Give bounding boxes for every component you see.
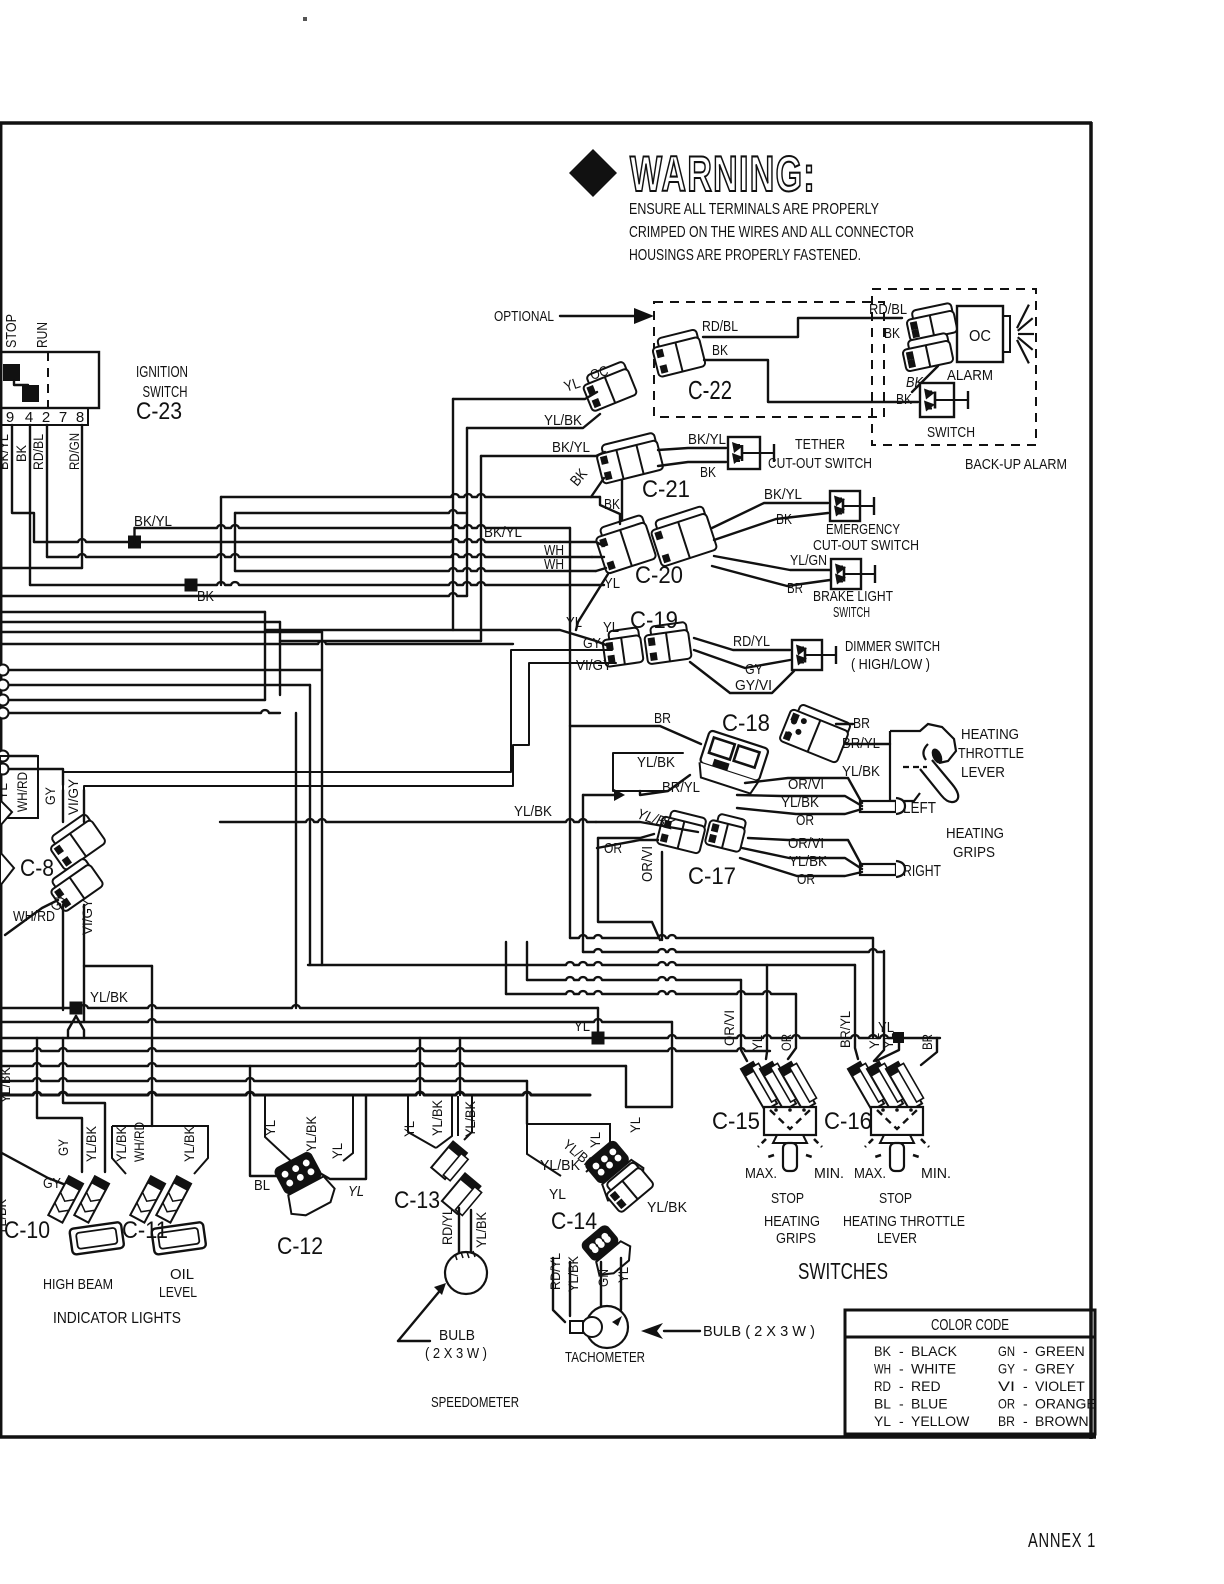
wire V2 mid vertical bbox=[582, 795, 584, 952]
optional arrowhead bbox=[634, 308, 654, 324]
svg-text:YL: YL bbox=[615, 1267, 631, 1283]
wire grip R1 bbox=[748, 838, 862, 866]
wire C-14 loop bbox=[626, 1106, 672, 1108]
wire drop 420 bbox=[419, 1038, 421, 1095]
wire 994 drop OR bbox=[788, 994, 796, 1059]
svg-text:RD/GN: RD/GN bbox=[66, 433, 82, 470]
wire run 641 bbox=[280, 640, 481, 642]
wire 1010 corner bbox=[597, 1008, 599, 1032]
svg-text:-: - bbox=[899, 1343, 904, 1359]
wire speedo lead 2 bbox=[470, 1210, 472, 1253]
svg-text:MIN.: MIN. bbox=[921, 1165, 951, 1182]
wire vert 296 bbox=[295, 713, 297, 1008]
svg-text:BR: BR bbox=[998, 1413, 1015, 1429]
svg-text:YL/BK: YL/BK bbox=[429, 1099, 445, 1136]
svg-text:C-16: C-16 bbox=[824, 1108, 872, 1135]
junction YL small bbox=[893, 1032, 904, 1043]
svg-text:GY: GY bbox=[43, 1175, 61, 1192]
svg-text:YL: YL bbox=[878, 1019, 894, 1036]
connector C-8 upper bbox=[45, 813, 107, 871]
ignition switch contact link bbox=[14, 381, 28, 385]
svg-text:OIL: OIL bbox=[170, 1266, 194, 1283]
wire BK from C-21 down bbox=[621, 480, 623, 519]
wire pin4 descent bbox=[29, 425, 31, 585]
svg-text:RUN: RUN bbox=[34, 322, 51, 348]
bulb arrowhead speedo bbox=[434, 1283, 446, 1295]
left grip symbol bbox=[860, 798, 905, 814]
wire V1 mid vertical bbox=[569, 726, 571, 938]
svg-text:RD/BL: RD/BL bbox=[869, 301, 907, 318]
svg-text:OR/VI: OR/VI bbox=[721, 1010, 737, 1046]
connector C-22 bbox=[650, 329, 706, 377]
svg-text:GRIPS: GRIPS bbox=[953, 844, 995, 861]
svg-text:-: - bbox=[899, 1413, 904, 1429]
left edge cut connector 1 bbox=[0, 800, 12, 826]
wire mate BR bbox=[836, 723, 853, 725]
wire into C-20 WH2 bbox=[596, 568, 606, 571]
label frame YL/BK c18 bbox=[613, 753, 683, 791]
junction YL bbox=[592, 1032, 605, 1045]
svg-text:BULB ( 2 X 3 W ): BULB ( 2 X 3 W ) bbox=[703, 1323, 815, 1340]
svg-text:C-13: C-13 bbox=[394, 1187, 440, 1214]
wire RD/BL to alarm bbox=[703, 318, 902, 337]
wire vert 235 bbox=[234, 513, 236, 571]
wire C-21 to tether BK bbox=[658, 462, 726, 466]
wire junction fan left bbox=[68, 1016, 76, 1038]
svg-text:C-11: C-11 bbox=[122, 1217, 168, 1244]
svg-text:YL/BK: YL/BK bbox=[514, 803, 552, 820]
wire vert 280 drop bbox=[279, 622, 281, 695]
wire run 980 bbox=[527, 977, 741, 980]
tachometer circle bbox=[586, 1306, 628, 1348]
svg-text:GY: GY bbox=[42, 786, 58, 805]
connector C-13 upper bbox=[431, 1141, 470, 1182]
svg-text:BK: BK bbox=[567, 466, 591, 490]
svg-text:YL/BK: YL/BK bbox=[462, 1100, 478, 1137]
wire left circle 670 bbox=[9, 669, 322, 671]
left edge terminal ring 1 bbox=[0, 665, 9, 676]
wire run 1095 bbox=[0, 1092, 590, 1095]
wire vert BKYL drop bbox=[480, 456, 482, 641]
svg-text:C-8: C-8 bbox=[20, 855, 54, 882]
svg-text:BK: BK bbox=[874, 1343, 892, 1359]
wire BK stub C-21 bbox=[591, 478, 604, 497]
ignition switch contact 1 bbox=[3, 364, 20, 381]
svg-text:HIGH BEAM: HIGH BEAM bbox=[43, 1276, 113, 1293]
wire run 952 bbox=[583, 949, 884, 952]
wire run 497 bbox=[221, 494, 600, 497]
svg-text:C-10: C-10 bbox=[4, 1217, 50, 1244]
wire WH/RD diag c8 bbox=[5, 900, 58, 935]
svg-text:YL: YL bbox=[262, 1120, 278, 1136]
wire C-8 drop VIGY bbox=[83, 790, 85, 822]
svg-text:C-21: C-21 bbox=[642, 476, 690, 503]
connector C-12 bbox=[269, 1148, 339, 1221]
connector C-8 lower bbox=[45, 857, 104, 912]
warning diamond bbox=[569, 149, 617, 197]
wire C-20 to emergency 2 bbox=[714, 513, 828, 540]
svg-text:BK: BK bbox=[13, 444, 29, 462]
svg-text:VI/GY: VI/GY bbox=[576, 657, 612, 674]
wire 1066 corner bbox=[625, 1066, 627, 1107]
page border right bbox=[1089, 122, 1093, 1439]
svg-text:ALARM: ALARM bbox=[947, 367, 993, 384]
svg-text:ORANGE: ORANGE bbox=[1035, 1396, 1096, 1412]
dashed box back-up alarm bbox=[872, 289, 1036, 445]
tach needle bbox=[612, 1316, 622, 1326]
wire vert 221 bbox=[220, 497, 222, 585]
svg-text:BK/YL: BK/YL bbox=[552, 439, 590, 456]
wire left circle 700 bbox=[9, 699, 265, 701]
svg-text:BK/YL: BK/YL bbox=[688, 431, 726, 448]
funnel C-14 frame bbox=[527, 1124, 610, 1176]
speedometer hatch bbox=[455, 1251, 475, 1260]
ignition switch dashed divider bbox=[47, 352, 49, 408]
svg-text:YL/BK: YL/BK bbox=[544, 412, 582, 429]
svg-text:HEATING: HEATING bbox=[764, 1213, 820, 1230]
svg-text:RD/YL: RD/YL bbox=[547, 1253, 563, 1290]
wire OR box top bbox=[598, 834, 654, 838]
wire C-19 to dimmer RD/YL bbox=[694, 638, 790, 650]
wire run 622 bbox=[0, 621, 280, 623]
svg-text:OR/VI: OR/VI bbox=[639, 846, 656, 882]
wire run 513b bbox=[235, 510, 467, 513]
optional arrow line bbox=[560, 315, 634, 317]
svg-text:WH/RD: WH/RD bbox=[14, 772, 30, 812]
wire into C-17 left bbox=[597, 840, 658, 848]
funnel C-11 frame bbox=[112, 1126, 208, 1174]
svg-text:LEFT: LEFT bbox=[903, 800, 936, 817]
connector C-21 bbox=[594, 432, 663, 484]
emergency cut-out switch bbox=[830, 491, 874, 521]
wire run 965 bbox=[308, 962, 855, 965]
svg-text:C-20: C-20 bbox=[635, 562, 683, 589]
wire 1038 drop 899 bbox=[876, 1043, 899, 1061]
wire BK switch to terminal bbox=[912, 366, 938, 392]
ignition switch contact 2 bbox=[22, 385, 39, 402]
svg-text:OR: OR bbox=[797, 871, 815, 888]
wire OR c17 path bbox=[598, 838, 660, 940]
wire mate to lever bbox=[846, 743, 890, 745]
wire C-20 to brake 1 bbox=[714, 556, 830, 570]
wire C-8 lower drops bbox=[62, 905, 64, 1010]
wire tach lead 1 bbox=[553, 1258, 565, 1322]
wire frame to C-18 bbox=[640, 775, 690, 795]
svg-text:YL/BK: YL/BK bbox=[90, 989, 128, 1006]
tachometer bulb bbox=[582, 1317, 602, 1337]
svg-text:4: 4 bbox=[25, 409, 33, 426]
svg-text:CRIMPED ON THE WIRES AND ALL C: CRIMPED ON THE WIRES AND ALL CONNECTOR bbox=[629, 224, 914, 241]
svg-text:BACK-UP ALARM: BACK-UP ALARM bbox=[965, 456, 1067, 473]
svg-text:GN: GN bbox=[998, 1343, 1015, 1359]
svg-text:GY: GY bbox=[998, 1361, 1016, 1377]
wire pin9 descent bbox=[12, 425, 34, 542]
left edge terminal ring 6 bbox=[0, 764, 9, 775]
svg-text:MIN.: MIN. bbox=[814, 1165, 844, 1182]
bulb arrowhead tach bbox=[641, 1323, 663, 1339]
svg-text:YL/BK: YL/BK bbox=[647, 1199, 687, 1216]
svg-text:DIMMER SWITCH: DIMMER SWITCH bbox=[845, 638, 940, 655]
wire BR to C-16 prong bbox=[921, 1038, 937, 1065]
svg-text:YL: YL bbox=[566, 614, 582, 631]
wire grip L2 bbox=[737, 795, 862, 806]
connector C-19 right bbox=[643, 622, 692, 665]
connector C-14 upper bbox=[580, 1136, 650, 1207]
svg-text:YL/BK: YL/BK bbox=[635, 806, 677, 834]
wire 497 corner to C-20R bbox=[600, 497, 620, 524]
connector C-20 left bbox=[593, 514, 657, 574]
svg-text:YL: YL bbox=[401, 1121, 417, 1137]
wire stepped run 557 bbox=[47, 554, 592, 557]
wire run 1081 bbox=[0, 1078, 527, 1081]
wire 951 drop YL2 bbox=[874, 951, 884, 1061]
svg-text:LEVEL: LEVEL bbox=[159, 1284, 197, 1301]
connector C-20 right bbox=[648, 505, 717, 567]
svg-text:BK: BK bbox=[700, 464, 716, 481]
wire run 1038 bbox=[0, 1035, 940, 1038]
svg-text:BL: BL bbox=[254, 1177, 270, 1194]
svg-text:( HIGH/LOW ): ( HIGH/LOW ) bbox=[851, 656, 930, 673]
tether cut-out switch bbox=[728, 437, 774, 469]
svg-text:EMERGENCY: EMERGENCY bbox=[826, 521, 900, 538]
svg-text:RD/YL: RD/YL bbox=[439, 1208, 455, 1245]
svg-text:CUT-OUT SWITCH: CUT-OUT SWITCH bbox=[768, 455, 872, 472]
wire run 1010 bbox=[0, 1005, 598, 1008]
wire V2 top corner bbox=[583, 794, 614, 796]
svg-text:MAX.: MAX. bbox=[854, 1165, 886, 1182]
left edge cut connector 2 bbox=[0, 852, 14, 886]
svg-text:OR: OR bbox=[604, 840, 622, 857]
svg-text:GY: GY bbox=[55, 1138, 71, 1156]
wire drop 37 bbox=[37, 1038, 82, 1172]
connector OC top bbox=[580, 361, 638, 412]
svg-text:YL/BK: YL/BK bbox=[789, 853, 827, 870]
connector C-17 right bbox=[705, 812, 748, 853]
svg-text:YL/BK: YL/BK bbox=[113, 1125, 129, 1162]
stray mark top bbox=[303, 17, 307, 21]
svg-text:BROWN: BROWN bbox=[1035, 1413, 1089, 1429]
junction BK bbox=[185, 579, 198, 592]
svg-text:YL/BK: YL/BK bbox=[0, 1066, 13, 1103]
wire YL to C-19 label bbox=[265, 630, 606, 645]
svg-text:RD/YL: RD/YL bbox=[733, 633, 770, 650]
left edge terminal ring 2 bbox=[0, 680, 9, 691]
svg-text:7: 7 bbox=[59, 409, 67, 426]
svg-text:STOP: STOP bbox=[879, 1190, 912, 1207]
back-up switch bbox=[920, 383, 968, 417]
wire stub 506 bbox=[505, 942, 507, 994]
wire C-20 to brake 2 bbox=[712, 566, 830, 586]
alarm box tab bbox=[1003, 316, 1010, 352]
svg-text:C-19: C-19 bbox=[630, 607, 678, 634]
ignition switch pin row bbox=[0, 408, 88, 425]
svg-text:YL/BK: YL/BK bbox=[83, 1125, 99, 1162]
svg-text:BR: BR bbox=[853, 715, 870, 732]
svg-text:-: - bbox=[1023, 1396, 1028, 1412]
svg-text:-: - bbox=[1023, 1361, 1028, 1377]
svg-text:YL: YL bbox=[874, 1413, 891, 1429]
wire bulb arrow speedo bbox=[398, 1287, 443, 1341]
svg-text:OR/VI: OR/VI bbox=[788, 835, 824, 852]
wire vert 322b bbox=[321, 632, 323, 965]
svg-text:YL: YL bbox=[549, 1186, 566, 1203]
wire tach lead 4 bbox=[620, 1258, 622, 1310]
wire run 938 bbox=[570, 935, 873, 938]
wire run 1051 bbox=[0, 1048, 770, 1051]
wire run 632 bbox=[0, 631, 322, 633]
svg-text:TETHER: TETHER bbox=[795, 436, 845, 453]
wire drop 460 bbox=[459, 1038, 461, 1095]
svg-text:INDICATOR LIGHTS: INDICATOR LIGHTS bbox=[53, 1310, 181, 1327]
wire C-12 loop outer bbox=[250, 1066, 290, 1176]
svg-text:WH/RD: WH/RD bbox=[13, 908, 55, 925]
connector C-18 bbox=[695, 730, 769, 795]
svg-text:YL/BK: YL/BK bbox=[181, 1125, 197, 1162]
svg-text:BR/YL: BR/YL bbox=[837, 1011, 853, 1048]
svg-text:YL: YL bbox=[0, 783, 10, 800]
svg-text:COLOR CODE: COLOR CODE bbox=[931, 1317, 1009, 1334]
svg-text:GY/VI: GY/VI bbox=[735, 677, 772, 694]
svg-text:YL: YL bbox=[627, 1117, 643, 1133]
wire stub 527 bbox=[526, 942, 528, 980]
arrow on wire V2 bbox=[614, 789, 625, 801]
wire left circle 769 bbox=[9, 769, 63, 785]
wire run 994 bbox=[506, 991, 796, 994]
svg-text:THROTTLE: THROTTLE bbox=[958, 745, 1024, 762]
right grip symbol bbox=[860, 861, 905, 877]
wire pin2 descent bbox=[46, 425, 48, 557]
wire grip R2 bbox=[742, 848, 862, 869]
terminal BK back-up bbox=[901, 332, 954, 371]
wire run 644 bbox=[0, 641, 513, 644]
switch C-15 bbox=[741, 1060, 822, 1171]
svg-text:-: - bbox=[1023, 1378, 1028, 1394]
svg-text:BK: BK bbox=[712, 342, 728, 359]
svg-text:C-22: C-22 bbox=[688, 375, 732, 405]
svg-text:C-12: C-12 bbox=[277, 1233, 323, 1260]
wire vert YL drop bbox=[452, 399, 454, 630]
ignition switch C-23 body bbox=[0, 352, 99, 408]
wire into C-20 WH1 bbox=[592, 556, 604, 558]
wire RD/GN leftward bbox=[0, 567, 82, 569]
left edge terminal ring 5 bbox=[0, 751, 9, 762]
svg-text:SWITCH: SWITCH bbox=[927, 424, 975, 441]
wire drop 152 bbox=[151, 1010, 153, 1126]
wire tach lead 3 bbox=[600, 1262, 602, 1307]
svg-text:YL: YL bbox=[574, 1018, 590, 1035]
svg-text:8: 8 bbox=[76, 409, 84, 426]
wire BK/YL main run bbox=[34, 539, 560, 542]
page border bottom bbox=[0, 1435, 1096, 1439]
wire left circle 756 bbox=[9, 755, 37, 757]
svg-text:-: - bbox=[899, 1361, 904, 1377]
svg-text:RD: RD bbox=[874, 1378, 891, 1394]
svg-text:BK/YL: BK/YL bbox=[0, 434, 11, 470]
wire 1022 corner C-14 loop bbox=[671, 1022, 673, 1107]
wire GY diag c10 bbox=[0, 1152, 66, 1185]
junction BK/YL bbox=[128, 536, 141, 549]
dimmer switch bbox=[792, 640, 836, 670]
svg-text:VI: VI bbox=[998, 1378, 1015, 1394]
wire bulb arrow tach bbox=[664, 1330, 700, 1332]
connector C-18 mate pins bbox=[785, 714, 808, 742]
svg-text:YL/BK: YL/BK bbox=[303, 1115, 319, 1152]
svg-text:RD/BL: RD/BL bbox=[30, 434, 46, 470]
svg-text:-: - bbox=[899, 1378, 904, 1394]
connector C-14 lower bbox=[576, 1220, 636, 1281]
wire OR/VI c17 path bbox=[661, 852, 663, 940]
svg-text:BL: BL bbox=[874, 1396, 891, 1412]
svg-text:BLUE: BLUE bbox=[911, 1396, 948, 1412]
wire 1081 corner bbox=[526, 1081, 528, 1124]
wire C-8 lower drops 2 bbox=[83, 905, 85, 1022]
wire BK to switch bbox=[704, 360, 918, 402]
funnel C-12 frame bbox=[265, 1095, 353, 1163]
svg-text:SWITCHES: SWITCHES bbox=[798, 1258, 888, 1284]
svg-text:GY: GY bbox=[745, 661, 763, 678]
svg-text:RED: RED bbox=[911, 1378, 941, 1394]
wire 965 drop BRYL bbox=[855, 965, 858, 1059]
svg-text:YL/GN: YL/GN bbox=[790, 552, 827, 569]
svg-text:HEATING: HEATING bbox=[946, 825, 1004, 842]
svg-text:ANNEX 1: ANNEX 1 bbox=[1028, 1530, 1096, 1552]
svg-text:OPTIONAL: OPTIONAL bbox=[494, 308, 554, 325]
svg-text:OR: OR bbox=[998, 1396, 1015, 1412]
label box YL WH/RD bbox=[0, 756, 38, 818]
svg-text:HOUSINGS ARE PROPERLY FASTENED: HOUSINGS ARE PROPERLY FASTENED. bbox=[629, 247, 861, 264]
wire junction fan right bbox=[76, 1016, 84, 1038]
svg-text:YL: YL bbox=[603, 619, 619, 636]
svg-text:YL: YL bbox=[348, 1183, 364, 1200]
svg-text:C-17: C-17 bbox=[688, 863, 736, 890]
svg-text:SPEEDOMETER: SPEEDOMETER bbox=[431, 1394, 519, 1411]
wire run 966a bbox=[84, 965, 152, 967]
wire C-8 drop GY bbox=[62, 790, 64, 822]
wire BK main run bbox=[30, 582, 604, 585]
wire vert 310 bbox=[309, 685, 311, 965]
svg-text:BK/YL: BK/YL bbox=[484, 524, 522, 541]
svg-text:9: 9 bbox=[6, 409, 14, 426]
wire 936 drop BR bbox=[872, 938, 874, 1038]
wire run 596 bbox=[0, 593, 467, 596]
wire run 1022 bbox=[0, 1019, 672, 1022]
wire drop 63 bbox=[63, 1038, 105, 1172]
connector C-13 lower bbox=[442, 1173, 484, 1217]
wire run 1066 bbox=[0, 1063, 626, 1066]
wire YL C-20 down to C-19 bbox=[576, 574, 608, 630]
svg-text:LEVER: LEVER bbox=[877, 1230, 917, 1247]
svg-text:BULB: BULB bbox=[439, 1327, 475, 1344]
stub jct1 up bbox=[133, 528, 135, 542]
connector C-17 left bbox=[656, 808, 707, 854]
wire YL/BK long 822 bbox=[220, 819, 596, 822]
svg-text:C-23: C-23 bbox=[136, 398, 182, 425]
svg-text:GREY: GREY bbox=[1035, 1361, 1075, 1377]
wire BK/YL label run 528 bbox=[135, 525, 571, 528]
wire left circle 713 bbox=[9, 710, 280, 713]
svg-text:2: 2 bbox=[42, 409, 50, 426]
indicator light C-11 bbox=[130, 1176, 206, 1255]
wire loop BR bbox=[570, 528, 701, 744]
wire speedo lead 1 bbox=[458, 1208, 460, 1253]
junction YL/BK bbox=[70, 1002, 83, 1015]
svg-text:HEATING THROTTLE: HEATING THROTTLE bbox=[843, 1213, 965, 1230]
svg-text:VI/GY: VI/GY bbox=[65, 778, 81, 815]
svg-text:YL: YL bbox=[587, 1132, 603, 1148]
dashed box C-22 optional bbox=[654, 302, 884, 417]
alarm box OC bbox=[957, 306, 1003, 362]
wire pin8 descent bbox=[81, 425, 83, 568]
